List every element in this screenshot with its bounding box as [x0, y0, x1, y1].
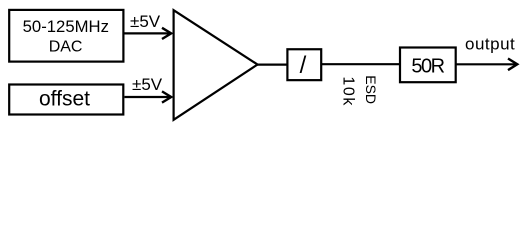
svg-text:/: / — [300, 52, 307, 79]
offset block — [9, 85, 123, 115]
label ESD 10k (rotated 90°) — [340, 75, 379, 107]
resistor block R1 (50R) — [400, 48, 456, 83]
svg-text:10k: 10k — [340, 76, 357, 107]
DAC block U1 (50-125MHz DAC) — [9, 10, 123, 62]
svg-text:50R: 50R — [411, 55, 444, 77]
svg-text:±5V: ±5V — [130, 12, 161, 31]
wire: DAC output to amplifier input (arrow) — [125, 28, 172, 39]
svg-text:offset: offset — [39, 87, 90, 110]
divider block (/) — [287, 49, 321, 80]
svg-text:DAC: DAC — [49, 39, 83, 56]
svg-text:output: output — [465, 35, 515, 54]
svg-text:±5V: ±5V — [132, 75, 163, 94]
wire: offset output to amplifier input (arrow) — [125, 91, 172, 102]
svg-text:ESD: ESD — [363, 75, 379, 104]
svg-text:50-125MHz: 50-125MHz — [23, 17, 109, 36]
wire: amplifier output to divider — [257, 63, 289, 65]
amplifier A1 (triangle) — [174, 10, 258, 120]
wire: 50R to output (arrow) — [456, 59, 518, 71]
wire: divider to 50R resistor (ESD 10k node) — [321, 63, 401, 65]
